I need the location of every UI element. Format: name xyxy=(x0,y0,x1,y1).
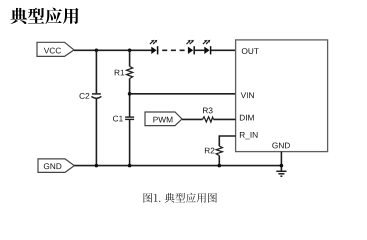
heading: 典型应用 (Typical Application) xyxy=(10,8,78,25)
node: VCC / R1 junction xyxy=(128,49,132,53)
resistor R1 xyxy=(115,66,133,78)
LED D3 xyxy=(203,40,211,55)
wire: LED D3 to OUT pin xyxy=(211,49,235,51)
wire: C2 top lead xyxy=(95,50,97,93)
wire: IC GND pin drop xyxy=(280,152,282,172)
capacitor C1 xyxy=(113,116,134,122)
net tag PWM xyxy=(145,112,182,126)
wire: R2 bottom lead xyxy=(218,156,220,166)
wire: R1 top lead xyxy=(129,50,131,66)
capacitor C2 (polarized) xyxy=(80,93,102,99)
wire: VIN line to IC xyxy=(130,93,236,95)
wire: VCC rail to LED string xyxy=(74,49,152,51)
wire: dashed LED string continuation xyxy=(158,49,188,51)
wire: C1 bottom lead xyxy=(129,120,131,166)
wire: R1 to C1 column xyxy=(129,79,131,117)
net tag VCC xyxy=(37,42,74,56)
IC U1 (LED driver block) xyxy=(236,40,328,152)
LED D1 xyxy=(150,40,158,55)
node: VCC / C2 junction xyxy=(95,49,99,53)
wire: PWM to R3 xyxy=(182,118,203,120)
wire: R3 to DIM pin xyxy=(213,118,235,120)
net tag GND xyxy=(38,159,74,173)
node: C1 ground junction xyxy=(128,164,132,168)
ground xyxy=(276,171,286,176)
resistor R3 xyxy=(203,108,214,123)
caption: 图1. 典型应用图 xyxy=(144,193,217,203)
resistor R2 xyxy=(205,146,223,156)
node: R2 ground junction xyxy=(218,164,222,168)
node: GND pin junction xyxy=(280,164,284,168)
wire: C2 bottom lead xyxy=(95,98,97,166)
node: VIN junction xyxy=(128,92,132,96)
LED D2 xyxy=(187,40,195,55)
node: C2 ground junction xyxy=(95,164,99,168)
wire: LED D2 to LED D3 xyxy=(195,49,205,51)
wire: R_IN pin to R2 xyxy=(219,136,235,146)
wire: ground rail xyxy=(74,165,281,167)
